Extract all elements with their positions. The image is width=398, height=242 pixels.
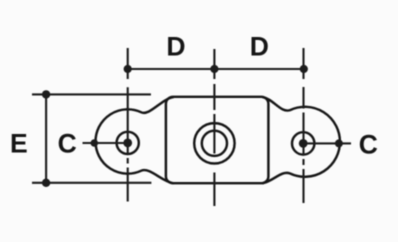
left mounting hole (117, 132, 139, 154)
body (central block outline) (166, 97, 269, 183)
svg-text:D: D (250, 31, 269, 61)
extension line E bottom (32, 182, 151, 184)
right lobe (ear with neck fillets) (263, 97, 340, 183)
svg-text:E: E (10, 129, 28, 159)
center hole inner circle (202, 131, 227, 156)
extension line E top (32, 93, 151, 95)
svg-text:C: C (359, 130, 378, 160)
dimension line E (left vertical) (45, 94, 47, 182)
leader line C left (83, 142, 128, 144)
dot left hole center (123, 139, 132, 148)
dot E bottom (42, 179, 50, 187)
left lobe (ear with neck fillets) (96, 97, 173, 183)
dot D middle (210, 65, 218, 73)
svg-text:D: D (166, 32, 185, 62)
leader line C right (304, 142, 352, 144)
centerline center hole (213, 49, 215, 206)
centerline right hole (302, 48, 304, 203)
right mounting hole (292, 132, 314, 154)
dot D right (300, 65, 308, 73)
dot E top (42, 90, 50, 98)
dot D left (124, 65, 132, 73)
dot C left lobe edge (91, 139, 99, 147)
dot C right lobe edge (335, 139, 343, 147)
svg-text:C: C (58, 129, 77, 159)
dimension line D (top) (128, 68, 304, 70)
dot right hole center (299, 139, 308, 148)
center hole outer circle (194, 123, 234, 163)
centerline left hole (127, 48, 129, 202)
